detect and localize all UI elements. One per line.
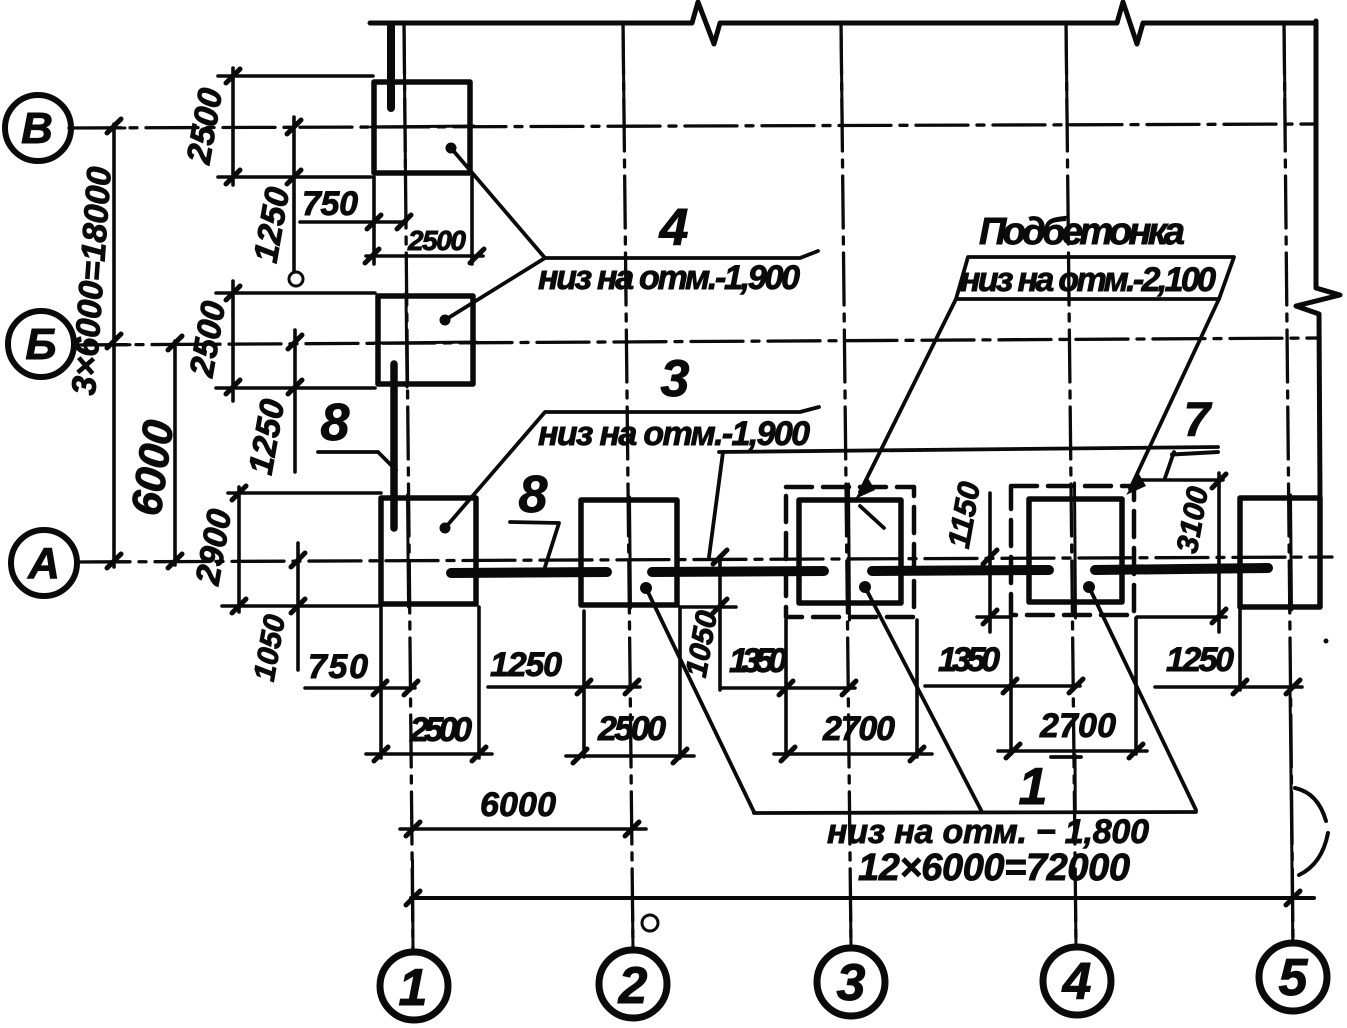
overall dimension line 72000 bbox=[411, 896, 1314, 900]
dim col 2900 footing A1 bbox=[237, 487, 241, 612]
diag leader A4 to note bbox=[1089, 587, 1196, 810]
svg-text:2500: 2500 bbox=[407, 225, 466, 256]
strip bars along axis A bbox=[451, 568, 1268, 573]
dim row 2500 under V bbox=[366, 254, 483, 258]
svg-text:1: 1 bbox=[1019, 758, 1048, 816]
svg-text:4: 4 bbox=[1062, 953, 1092, 1011]
svg-text:низ на отм.-2,100: низ на отм.-2,100 bbox=[960, 261, 1216, 299]
dim row 750 under V bbox=[300, 220, 406, 224]
arrowhead podbetonka left bbox=[855, 478, 875, 499]
svg-text:2: 2 bbox=[618, 957, 648, 1015]
AXIS LINES bbox=[69, 124, 1332, 562]
svg-text:8: 8 bbox=[321, 394, 350, 452]
svg-text:2500: 2500 bbox=[597, 710, 666, 748]
podbetonka box bbox=[956, 257, 1234, 299]
small circle mark left bbox=[289, 272, 303, 286]
axis line A bbox=[78, 557, 1332, 562]
dim col 1150 left of A4 bbox=[988, 493, 992, 632]
ext lines footing A2 bbox=[582, 611, 586, 757]
axis line 3 bbox=[841, 22, 851, 946]
leader dot footing A3 bbox=[859, 581, 871, 593]
axis line 5 bbox=[1284, 22, 1293, 941]
dim col 2500 footing B bbox=[231, 281, 235, 401]
svg-text:750: 750 bbox=[308, 648, 368, 686]
svg-text:8: 8 bbox=[519, 466, 548, 524]
footing V/1 bbox=[374, 82, 470, 173]
axis line B bbox=[75, 338, 1320, 345]
dim col 1050 footing A1 bbox=[296, 543, 300, 670]
svg-text:2500: 2500 bbox=[409, 711, 472, 749]
leader dot footing A2 bbox=[640, 582, 652, 594]
footing A/4 bbox=[1029, 499, 1122, 602]
axis5 break arcs bbox=[1295, 788, 1326, 821]
svg-text:низ на отм.-1,900: низ на отм.-1,900 bbox=[538, 259, 800, 297]
diag leader A2 to note bbox=[646, 588, 754, 812]
arrowhead podbetonka right bbox=[1126, 474, 1146, 495]
svg-text:1250: 1250 bbox=[490, 646, 562, 684]
callout 1 rule bbox=[1051, 755, 1081, 759]
callout 8 mid leader bbox=[510, 522, 559, 567]
callout 4 leader bbox=[451, 148, 818, 258]
footing B/1 bbox=[378, 296, 473, 384]
blinding A/4 dashed bbox=[1011, 486, 1134, 615]
callout 3 leader bbox=[445, 407, 819, 528]
svg-text:В: В bbox=[21, 104, 53, 153]
AXIS CIRCLES BOTTOM bbox=[380, 943, 1327, 1020]
podbetonka leader left bbox=[860, 299, 956, 492]
podbetonka leader right bbox=[1130, 299, 1219, 489]
axis line 1 bbox=[404, 22, 413, 950]
axis bubble 2 bbox=[599, 950, 667, 1018]
ext lines footing A1 bbox=[228, 491, 381, 495]
dimension tick marks bbox=[107, 69, 1300, 905]
dim row y688: 750 1250 1350 1350 1250 bbox=[305, 686, 415, 690]
axis line V bbox=[69, 124, 1316, 128]
svg-text:2700: 2700 bbox=[822, 710, 895, 748]
svg-text:5: 5 bbox=[1279, 949, 1309, 1007]
AXIS CIRCLES LEFT bbox=[5, 95, 77, 596]
svg-text:2700: 2700 bbox=[1039, 707, 1116, 745]
note underline 1,800 bbox=[754, 812, 1196, 813]
thick wall bar mid (pos 8) bbox=[390, 364, 398, 528]
svg-text:3: 3 bbox=[837, 954, 866, 1012]
ext lines footing V bbox=[218, 74, 373, 78]
leader dot footing A1 bbox=[440, 523, 451, 534]
dim col 2500 footing V bbox=[231, 68, 235, 185]
footing A/2 bbox=[581, 500, 677, 605]
callout 3 arrow to A2 bbox=[709, 452, 723, 557]
axis bubble V bbox=[5, 95, 71, 161]
left dim col 3x6000 bbox=[112, 124, 116, 567]
callout 7 short leader bbox=[1165, 452, 1174, 478]
svg-text:1350: 1350 bbox=[938, 641, 1000, 679]
svg-text:1: 1 bbox=[399, 959, 428, 1017]
axis bubble 3 bbox=[817, 948, 885, 1016]
axis bubble B bbox=[8, 311, 74, 377]
axis bubble 4 bbox=[1043, 947, 1111, 1015]
dim row y754: 2500 2500 2700 2700 bbox=[366, 752, 492, 756]
svg-text:1350: 1350 bbox=[729, 642, 787, 680]
footing A/3 bbox=[799, 500, 901, 603]
dim col 1250 footing B bbox=[293, 330, 297, 472]
dimension and extension lines bbox=[114, 68, 1302, 829]
thick wall bar top (pos 8) bbox=[387, 25, 395, 108]
svg-text:6000: 6000 bbox=[480, 786, 556, 824]
svg-text:7: 7 bbox=[1184, 394, 1213, 447]
speck mark bbox=[1324, 639, 1329, 644]
axis bubble 5 bbox=[1259, 943, 1327, 1011]
svg-text:1250: 1250 bbox=[1166, 641, 1234, 679]
svg-text:750: 750 bbox=[302, 185, 358, 223]
dim col 1050 right of A2 bbox=[718, 556, 722, 690]
callout 7 rule end double stroke bbox=[1172, 452, 1218, 455]
callout 8 top leader bbox=[318, 452, 396, 470]
svg-text:Б: Б bbox=[25, 320, 56, 369]
blinding A/3 dashed bbox=[786, 487, 914, 617]
ext lines footing B bbox=[216, 291, 375, 295]
footing A/5 bbox=[1240, 498, 1320, 607]
ext line footing A5 bbox=[1238, 610, 1242, 690]
small circle mark bottom bbox=[642, 915, 658, 931]
leader dot footing A4 bbox=[1083, 581, 1095, 593]
svg-text:низ на отм.-1,900: низ на отм.-1,900 bbox=[538, 415, 810, 453]
axis bubble A bbox=[11, 530, 77, 596]
svg-text:А: А bbox=[27, 539, 60, 588]
ext lines footing A4 bbox=[1009, 618, 1013, 754]
footing A/1 bbox=[381, 498, 476, 604]
svg-text:4: 4 bbox=[659, 199, 689, 257]
axis bubble 1 bbox=[380, 952, 448, 1020]
left dim col 6000 bbox=[173, 341, 177, 565]
dim row 6000 bbox=[400, 827, 646, 831]
leader dot footing B bbox=[440, 315, 451, 326]
right border line with break mark bbox=[1296, 21, 1340, 498]
leader dot footing V bbox=[446, 143, 457, 154]
svg-text:12×6000=72000: 12×6000=72000 bbox=[858, 847, 1130, 889]
svg-text:3: 3 bbox=[661, 350, 690, 408]
axis line 2 bbox=[623, 22, 633, 949]
dim col 1250 footing V bbox=[292, 117, 296, 272]
svg-text:низ на отм. − 1,800: низ на отм. − 1,800 bbox=[827, 813, 1149, 851]
axis line 4 bbox=[1066, 22, 1076, 945]
callout 7 rule bbox=[719, 447, 1218, 452]
svg-text:Подбетонка: Подбетонка bbox=[979, 211, 1185, 253]
diag leader A3 to note bbox=[865, 587, 982, 812]
dim col 3100 right of A4 bbox=[1217, 473, 1221, 632]
vertical axes 1-5 bbox=[404, 22, 1293, 950]
ext lines footing A3 bbox=[784, 620, 788, 757]
top border line with two break marks bbox=[370, 2, 1316, 44]
